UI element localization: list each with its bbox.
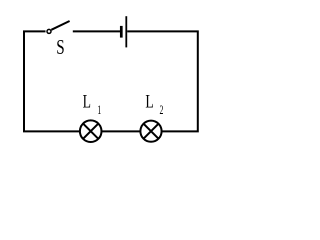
switch S pivot [47,29,51,33]
svg-text:L: L [83,90,91,112]
battery positive plate (long thin) [125,16,127,47]
switch S blade (open) [51,21,69,30]
battery negative plate (short thick) [120,26,123,38]
svg-text:L: L [145,90,153,112]
wire: battery to top-right corner, right side, bottom segment to lamp L2 [127,31,198,131]
svg-text:S: S [56,36,64,59]
lamp L1 circle [80,120,102,142]
lamp L2 circle [140,121,161,142]
svg-text:2: 2 [159,103,163,118]
svg-text:1: 1 [97,103,101,118]
wire: between lamp L1 and lamp L2 [102,130,141,132]
lamp L1 cross [83,124,98,139]
lamp L2 cross [144,124,159,139]
wire: switch right lead to battery [73,30,120,32]
wire: left side, top-left segment to switch, bottom-left segment to lamp L1 [24,31,80,131]
